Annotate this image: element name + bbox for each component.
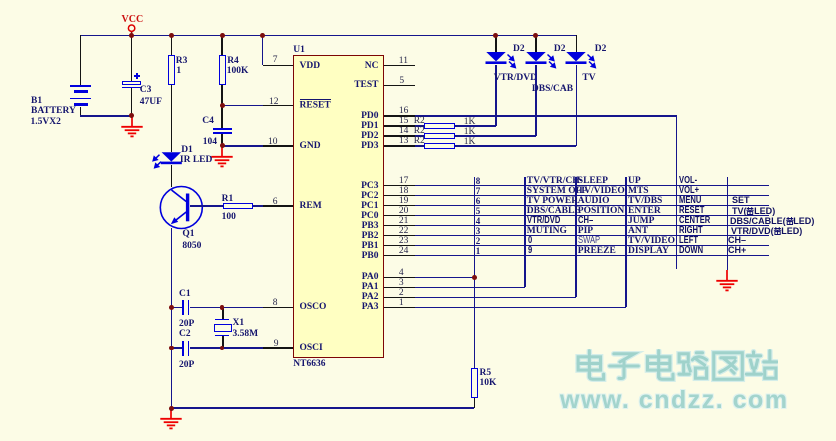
wire LED2 cathode bbox=[535, 65, 537, 136]
wire pin5 TEST stub bbox=[384, 85, 415, 87]
wire pin stub bbox=[384, 145, 415, 147]
wire row pin 20 bbox=[384, 215, 769, 217]
value 3.58M bbox=[233, 330, 259, 338]
wire pin 9 OSCI bbox=[190, 347, 294, 349]
value 47UF bbox=[140, 98, 162, 106]
wire C2 left bbox=[171, 347, 182, 349]
pin name PA2 bbox=[362, 293, 379, 301]
wire pin stub bbox=[384, 255, 415, 257]
label VOL+ bbox=[679, 187, 699, 196]
wire pin stub bbox=[384, 297, 415, 299]
label IR LED bbox=[180, 156, 212, 164]
wire pin stub left bbox=[263, 145, 293, 147]
wire to pin 12 bbox=[222, 105, 293, 107]
label R2 a bbox=[414, 117, 425, 125]
pin name PD2 bbox=[361, 132, 378, 140]
wire PD0 row bbox=[384, 115, 677, 117]
junction PA0 column bbox=[472, 275, 477, 280]
label DBS/CABLE LED bbox=[730, 217, 814, 227]
junction bottom rail bbox=[169, 406, 174, 411]
wire pin stub bbox=[384, 125, 415, 127]
pin 1 bbox=[399, 299, 404, 307]
wire row PA pin 3 bbox=[384, 287, 525, 289]
value 20P C2 bbox=[179, 361, 194, 369]
label CH+ bbox=[728, 247, 746, 256]
label 9 bbox=[528, 247, 532, 256]
ground bottom bbox=[159, 408, 183, 431]
value 1K a bbox=[464, 118, 476, 126]
wire column 2 bbox=[524, 177, 526, 288]
pin name PA1 bbox=[362, 283, 379, 291]
junction bbox=[220, 33, 225, 38]
wire row pin 19 bbox=[384, 205, 769, 207]
wire column PD0 bbox=[676, 116, 678, 269]
junction bbox=[260, 33, 265, 38]
wire pin 8 OSCO bbox=[190, 307, 294, 309]
label AUDIO bbox=[578, 197, 610, 205]
pin name REM bbox=[300, 202, 322, 210]
value 100 bbox=[222, 213, 236, 221]
battery B1 bbox=[0, 0, 836, 1]
label D2 a bbox=[513, 45, 525, 53]
wire Q1 base to R1 bbox=[190, 205, 223, 207]
wire pin stub left bbox=[263, 205, 293, 207]
wire pin stub left bbox=[263, 347, 293, 349]
label R2 c bbox=[414, 137, 425, 145]
capacitor C2 bbox=[0, 0, 836, 1]
wire column 3 bbox=[575, 177, 577, 298]
capacitor C4 bbox=[0, 0, 836, 1]
label SYSTEM OFF bbox=[527, 187, 587, 195]
pin 11 bbox=[399, 57, 408, 65]
crystal X1 bbox=[0, 0, 836, 1]
pin name PC2 bbox=[361, 192, 378, 200]
label R1 bbox=[222, 195, 234, 203]
label C4 bbox=[202, 117, 214, 125]
label PIP bbox=[578, 227, 593, 235]
pin 21 bbox=[399, 217, 409, 225]
watermark url bbox=[560, 386, 789, 415]
wire to pin 10 bbox=[222, 145, 293, 147]
label VTR/DVD led bbox=[494, 74, 537, 82]
label MTS bbox=[628, 187, 649, 195]
junction bbox=[169, 33, 174, 38]
wire D1 to Q1 bbox=[171, 165, 173, 187]
wire row pin 21 bbox=[384, 225, 769, 227]
pin name PC1 bbox=[361, 202, 378, 210]
op-amp U1 NT6636 bbox=[293, 55, 384, 357]
pin name RESET bbox=[300, 101, 331, 109]
ground under C4 bbox=[210, 146, 234, 169]
wire row PA pin 1 bbox=[384, 307, 626, 309]
pin name PD3 bbox=[361, 142, 378, 150]
resistor R4 bbox=[219, 55, 226, 85]
node key 7 bbox=[476, 187, 481, 195]
label D1 bbox=[181, 146, 193, 154]
wire pin stub bbox=[384, 307, 415, 309]
pin 18 bbox=[399, 187, 409, 195]
label NT6636 bbox=[293, 360, 325, 368]
power VCC bbox=[123, 23, 141, 37]
diode D2 TV bbox=[564, 51, 598, 71]
label R5 bbox=[480, 369, 492, 377]
wire R3 top lead bbox=[171, 35, 173, 55]
pin 16 bbox=[399, 107, 409, 115]
label C1 bbox=[179, 290, 191, 298]
label D2 b bbox=[554, 45, 566, 53]
pin 15 bbox=[399, 117, 409, 125]
wire column ground bbox=[727, 177, 729, 271]
node key 1 bbox=[476, 247, 481, 255]
wire pin stub bbox=[384, 235, 415, 237]
label VTR/DVD LED bbox=[731, 227, 802, 237]
pin name OSCO bbox=[300, 303, 327, 311]
value 1K c bbox=[464, 138, 476, 146]
wire battery bottom lead bbox=[80, 107, 82, 116]
diode D2 DBS/CAB bbox=[524, 51, 558, 71]
label RESET key bbox=[679, 207, 704, 216]
junction bbox=[129, 33, 134, 38]
wire LED1 cathode bbox=[495, 65, 497, 126]
pin name OSCI bbox=[300, 344, 323, 352]
wire pin stub left bbox=[263, 307, 293, 309]
pin name PD0 bbox=[361, 112, 378, 120]
pin name NC bbox=[365, 62, 379, 70]
wire row pin 22 bbox=[384, 235, 769, 237]
pin 3 bbox=[399, 279, 404, 287]
wire row pin 17 bbox=[384, 185, 769, 187]
label SLEEP bbox=[578, 177, 608, 185]
pin name VDD bbox=[300, 62, 321, 70]
label VOL- bbox=[679, 177, 697, 186]
pin 22 bbox=[399, 227, 409, 235]
label JUMP bbox=[628, 217, 654, 225]
label DBS/CAB led bbox=[532, 85, 573, 93]
label TV/VIDEO b bbox=[628, 237, 675, 245]
pin 6 bbox=[273, 198, 278, 206]
pin name PB0 bbox=[362, 252, 379, 260]
pin 2 bbox=[399, 289, 404, 297]
diode D1 IR LED bbox=[149, 151, 184, 172]
wire row pin 18 bbox=[384, 195, 769, 197]
resistor R3 bbox=[168, 55, 175, 85]
wire pin stub bbox=[384, 185, 415, 187]
wire C4 bottom lead bbox=[221, 134, 223, 146]
wire row pin 23 bbox=[384, 245, 769, 247]
wire pin7 stub bbox=[263, 65, 293, 67]
label C2 bbox=[179, 330, 191, 338]
label DOWN bbox=[679, 247, 703, 256]
node key 8 bbox=[476, 177, 481, 185]
label TV led bbox=[582, 74, 595, 82]
wire row PA pin 2 bbox=[384, 297, 576, 299]
junction battery/C3/ground bbox=[129, 113, 134, 118]
resistor R2 b bbox=[424, 133, 455, 139]
pin 7 bbox=[273, 56, 278, 64]
pin 8 bbox=[273, 299, 278, 307]
node key 2 bbox=[476, 237, 481, 245]
wire battery top lead bbox=[80, 35, 82, 85]
pin name PB3 bbox=[362, 222, 379, 230]
wire R1 to pin 6 bbox=[253, 205, 293, 207]
label R4 bbox=[227, 57, 239, 65]
wire bottom rail bbox=[171, 407, 474, 409]
wire pin stub bbox=[384, 115, 415, 117]
pin 9 bbox=[274, 340, 279, 348]
wire pin stub left bbox=[263, 105, 293, 107]
junction C2 bbox=[169, 346, 174, 351]
node key 3 bbox=[476, 227, 481, 235]
label DBS/CABLE bbox=[527, 207, 581, 215]
pin 13 bbox=[399, 137, 409, 145]
wire pin stub bbox=[384, 195, 415, 197]
value 1K b bbox=[464, 128, 476, 136]
wire R4 top lead bbox=[221, 35, 223, 55]
wire PD1 stub bbox=[384, 125, 424, 127]
label D2 c bbox=[595, 45, 607, 53]
ground matrix bbox=[715, 270, 739, 293]
junction pin12 bbox=[220, 103, 225, 108]
pin 17 bbox=[399, 177, 409, 185]
wire column 4 bbox=[625, 177, 627, 308]
wire PD3 stub bbox=[384, 145, 424, 147]
value 1 bbox=[176, 67, 181, 75]
wire R5 bottom lead bbox=[474, 398, 476, 408]
wire pin stub bbox=[384, 287, 415, 289]
label C3 bbox=[140, 86, 152, 94]
pin name PC0 bbox=[361, 212, 378, 220]
wire R2c to LED3 bbox=[455, 145, 577, 147]
wire pin stub bbox=[384, 245, 415, 247]
transistor Q1 bbox=[158, 184, 206, 232]
wire LED3 anode bbox=[576, 35, 578, 52]
resistor R2 a bbox=[424, 123, 455, 129]
wire pin stub bbox=[384, 225, 415, 227]
diode D2 VTR/DVD bbox=[484, 51, 518, 71]
junction C1 bbox=[169, 305, 174, 310]
resistor R2 c bbox=[424, 143, 455, 149]
wire R2a to LED1 bbox=[455, 125, 496, 127]
pin 14 bbox=[399, 127, 409, 135]
wire LED3 cathode bbox=[576, 65, 578, 146]
node key 4 bbox=[476, 217, 481, 225]
label CH- key bbox=[578, 217, 593, 226]
junction bbox=[533, 33, 538, 38]
label TV POWER bbox=[527, 197, 578, 205]
label PREEZE bbox=[578, 247, 616, 255]
pin 10 bbox=[268, 138, 278, 146]
junction X1 top bbox=[220, 305, 225, 310]
pin name GND bbox=[300, 142, 321, 150]
wire row PA pin 4 bbox=[384, 277, 474, 279]
pin 20 bbox=[399, 207, 409, 215]
wire pin stub bbox=[384, 205, 415, 207]
label 0 bbox=[528, 237, 532, 246]
value 1.5VX2 bbox=[31, 118, 61, 126]
pin name PA0 bbox=[362, 273, 379, 281]
label R2 b bbox=[414, 127, 425, 135]
wire pin stub bbox=[384, 277, 415, 279]
label TV/DBS bbox=[628, 197, 662, 205]
value 104 bbox=[203, 138, 217, 146]
wire row pin 24 bbox=[384, 255, 769, 257]
wire pin11 NC stub bbox=[384, 65, 415, 67]
label TV/VIDEO a bbox=[578, 187, 625, 195]
pin 24 bbox=[399, 247, 409, 255]
pin 23 bbox=[399, 237, 409, 245]
wire column 1 bbox=[474, 177, 476, 369]
label U1 bbox=[293, 46, 305, 54]
wire R3 to D1 bbox=[171, 85, 173, 152]
label ENTER bbox=[628, 207, 661, 215]
label RIGHT bbox=[679, 227, 703, 236]
label SET bbox=[732, 197, 750, 206]
wire VDD riser bbox=[262, 35, 264, 65]
label B1 bbox=[31, 97, 42, 105]
pin name PD1 bbox=[361, 122, 378, 130]
value 100K bbox=[227, 67, 249, 75]
wire VCC rail bbox=[80, 35, 576, 37]
label TV LED bbox=[732, 207, 775, 217]
wire LED1 anode bbox=[495, 35, 497, 52]
pin 12 bbox=[269, 98, 279, 106]
label CH- b bbox=[728, 237, 746, 246]
wire C3 top lead bbox=[131, 35, 133, 81]
value 10K bbox=[480, 379, 497, 387]
resistor R5 bbox=[471, 368, 478, 398]
value 20P C1 bbox=[179, 320, 194, 328]
label DISPLAY bbox=[628, 247, 669, 255]
wire R2b to LED2 bbox=[455, 135, 536, 137]
label X1 bbox=[233, 319, 245, 327]
pin name PB2 bbox=[362, 232, 379, 240]
wire PD2 stub bbox=[384, 135, 424, 137]
capacitor C1 bbox=[0, 0, 836, 1]
pin 19 bbox=[399, 197, 409, 205]
ground under C3 bbox=[120, 116, 144, 139]
label ANT bbox=[628, 227, 648, 235]
node key 5 bbox=[476, 207, 481, 215]
junction X1 bottom bbox=[220, 346, 225, 351]
label MENU bbox=[679, 197, 701, 206]
wire R4 to C4 bbox=[221, 85, 223, 129]
wire C1 left bbox=[171, 307, 182, 309]
pin 5 bbox=[399, 77, 404, 85]
capacitor C3 bbox=[0, 0, 836, 1]
pin name PA3 bbox=[362, 303, 379, 311]
label SWAP bbox=[578, 237, 600, 246]
wire pin stub bbox=[384, 215, 415, 217]
label UP bbox=[628, 177, 641, 185]
label R3 bbox=[176, 57, 188, 65]
pin name PC3 bbox=[361, 182, 378, 190]
label VTR/DVD key bbox=[527, 217, 560, 226]
label POSITION bbox=[578, 207, 624, 215]
label BATTERY bbox=[31, 107, 76, 115]
junction bbox=[493, 33, 498, 38]
label Q1 bbox=[182, 230, 194, 238]
watermark bbox=[572, 349, 778, 383]
wire Q1 emitter down bbox=[171, 228, 173, 408]
pin name PB1 bbox=[362, 242, 379, 250]
node key 6 bbox=[476, 197, 481, 205]
pin 4 bbox=[399, 269, 404, 277]
wire LED2 anode bbox=[535, 35, 537, 52]
resistor R1 bbox=[223, 203, 254, 209]
label CENTER bbox=[679, 217, 710, 226]
wire battery to C3 bbox=[80, 115, 131, 117]
label LEFT bbox=[679, 237, 698, 246]
wire C3 bottom lead bbox=[131, 88, 133, 115]
value 8050 bbox=[182, 242, 201, 250]
label MUTING bbox=[527, 227, 567, 235]
label TV/VTR/CH- bbox=[527, 177, 583, 185]
junction pin10 bbox=[220, 143, 225, 148]
wire pin stub bbox=[384, 135, 415, 137]
pin name TEST bbox=[354, 81, 378, 89]
label VCC bbox=[122, 16, 144, 24]
